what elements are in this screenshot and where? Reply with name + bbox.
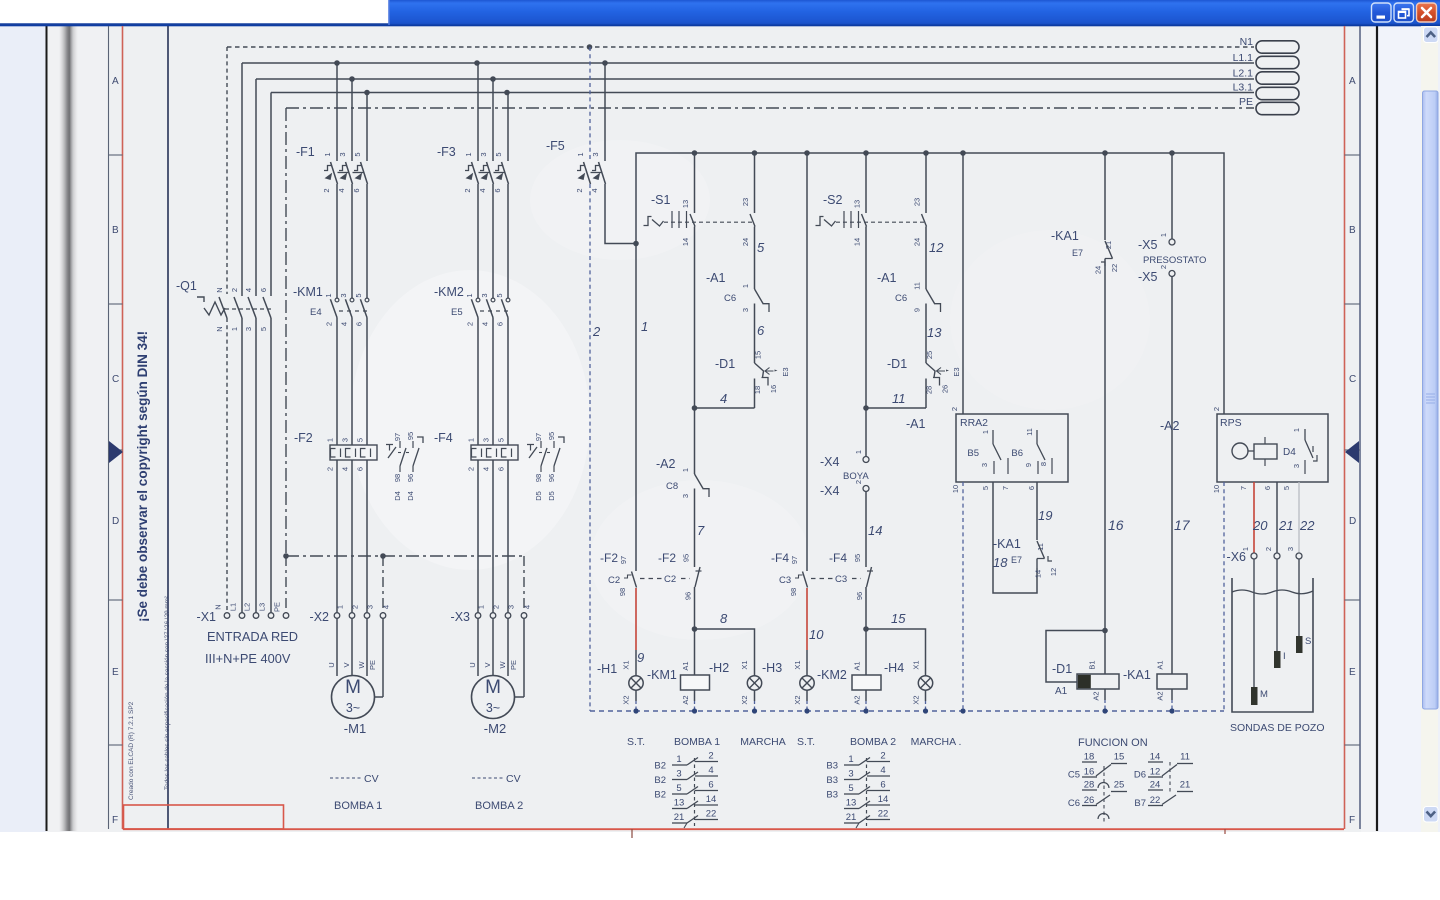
svg-text:4: 4 [720,391,727,406]
svg-text:F: F [1349,815,1355,826]
svg-text:3: 3 [482,438,491,442]
svg-text:6: 6 [880,780,885,791]
svg-text:U: U [327,662,336,667]
svg-text:26: 26 [941,385,950,393]
lamp H3 [762,650,814,711]
CV note pump1 [330,773,379,785]
svg-text:6: 6 [496,322,505,326]
RRA2 N dashed pin10 [962,482,964,711]
contactor KM2 [434,285,510,445]
main switch Q1 [176,279,274,332]
contactor coil KM1 [647,626,710,711]
svg-text:3: 3 [479,152,488,156]
S2 contact 23-24 [913,153,945,255]
svg-text:E4: E4 [310,307,322,318]
svg-text:97: 97 [534,433,543,441]
svg-text:1: 1 [326,438,335,442]
svg-text:B3: B3 [826,761,838,772]
svg-text:-KA1: -KA1 [1051,229,1079,243]
svg-text:4: 4 [708,765,713,776]
page curl shadow [59,26,78,831]
svg-text:-H3: -H3 [762,661,782,675]
svg-text:11: 11 [892,391,906,406]
svg-text:-F1: -F1 [296,145,315,159]
branch to H4 [866,629,926,676]
svg-text:-X6: -X6 [1227,550,1247,564]
relay box A1 RRA2 [950,407,1068,493]
svg-text:M: M [1260,689,1268,700]
svg-text:S.T.: S.T. [797,736,815,748]
svg-text:E5: E5 [451,307,463,318]
junction dot rung KM2 [863,405,869,411]
svg-text:3: 3 [676,769,681,780]
svg-text:A2: A2 [1092,691,1101,700]
rung 1 wire [635,244,637,572]
svg-text:-M1: -M1 [344,721,366,736]
svg-text:2: 2 [326,467,335,471]
title block tick right [1224,829,1226,834]
svg-text:L3: L3 [258,603,267,611]
svg-text:2: 2 [467,467,476,471]
svg-text:SONDAS DE POZO: SONDAS DE POZO [1230,722,1325,734]
svg-text:CV: CV [506,773,521,785]
svg-text:1: 1 [576,152,585,156]
xref C5/C6 timer contacts [1068,752,1127,825]
svg-text:S.T.: S.T. [627,736,645,748]
svg-text:10: 10 [1212,485,1221,493]
bottom white band [0,832,1440,900]
svg-text:-F2: -F2 [600,551,618,565]
svg-text:B: B [112,225,119,236]
relay coil KA1 [1123,660,1187,711]
wires Q1 to X1 [227,318,271,613]
svg-text:5: 5 [676,783,681,794]
svg-text:6: 6 [708,780,713,791]
terminal strip X1 [197,602,289,624]
svg-text:97: 97 [790,556,799,564]
svg-text:5: 5 [497,438,506,442]
F2 aux 97-98 (C2) [600,551,690,596]
svg-text:4: 4 [482,467,491,471]
svg-text:97: 97 [619,556,628,564]
svg-text:4: 4 [382,605,391,609]
svg-text:6: 6 [352,188,361,192]
svg-text:2: 2 [466,322,475,326]
svg-text:9: 9 [1024,463,1033,467]
svg-text:4: 4 [478,188,487,192]
svg-text:7: 7 [697,523,705,538]
svg-text:6: 6 [356,467,365,471]
svg-text:2: 2 [854,480,863,484]
level relay box A2 RPS [1212,407,1328,493]
svg-text:MARCHA: MARCHA [740,736,786,748]
svg-text:C8: C8 [666,481,678,492]
svg-text:13: 13 [681,200,690,208]
svg-text:N1: N1 [1240,36,1254,48]
motor M2 [472,676,515,737]
wire bus to X5 [1171,153,1173,239]
svg-text:2: 2 [1212,407,1221,411]
terminal strip X2 [310,605,391,624]
svg-text:L1: L1 [229,603,238,611]
svg-text:1: 1 [324,293,333,297]
svg-text:-S1: -S1 [651,193,671,207]
svg-text:B5: B5 [967,448,979,459]
svg-text:2: 2 [575,188,584,192]
svg-text:11: 11 [1025,428,1034,436]
svg-text:-KM1: -KM1 [293,285,323,299]
svg-text:4: 4 [340,322,349,326]
title bar white menu box [0,0,389,25]
wire A2 to F2 aux [694,489,696,568]
svg-text:14: 14 [853,238,862,246]
svg-text:3~: 3~ [486,701,500,715]
bus L3.1 [271,92,1254,94]
svg-text:10: 10 [809,627,824,642]
svg-text:5: 5 [757,240,765,255]
svg-text:5: 5 [981,486,990,490]
svg-text:3: 3 [741,308,750,312]
svg-text:9: 9 [913,308,922,312]
svg-text:C5: C5 [1068,770,1080,781]
svg-text:28: 28 [1084,780,1095,791]
svg-text:S: S [1305,636,1311,647]
svg-text:1: 1 [676,754,681,765]
selector switch S1 [644,193,756,228]
red wire rung 10 [806,588,808,650]
frame inner thin line left [108,26,110,829]
well tank [1232,578,1313,712]
svg-text:14: 14 [706,794,717,805]
svg-text:-D1: -D1 [1052,662,1072,676]
CV note pump2 [472,773,521,785]
svg-text:D: D [1349,516,1356,527]
svg-text:Creado con ELCAD (R) 7.2.1 SP2: Creado con ELCAD (R) 7.2.1 SP2 [128,701,135,800]
svg-text:15: 15 [891,611,906,626]
svg-text:C3: C3 [835,574,847,585]
relay contact A2 C8 [656,457,709,538]
title block red box [124,805,284,829]
svg-text:5: 5 [356,438,365,442]
row labels left [112,76,119,826]
svg-text:-KM1: -KM1 [647,668,677,682]
svg-text:PE: PE [368,660,377,670]
S2 contact 13-14 [853,153,867,246]
PE dash-dot distribution [283,553,525,612]
svg-text:97: 97 [393,433,402,441]
svg-text:U: U [468,662,477,667]
svg-text:L2: L2 [243,603,252,611]
svg-text:6: 6 [1027,486,1036,490]
lamp H2 [709,660,762,711]
motor M1 [332,676,375,737]
svg-text:-X4: -X4 [820,484,840,498]
svg-text:I: I [1283,651,1286,662]
svg-text:-A1: -A1 [906,417,926,431]
terminal strip X3 [451,605,532,624]
svg-text:C2: C2 [664,574,676,585]
svg-text:V: V [483,662,492,667]
svg-text:4: 4 [880,765,885,776]
svg-text:A1: A1 [1156,660,1165,669]
svg-text:96: 96 [684,592,693,600]
svg-text:5: 5 [354,293,363,297]
svg-text:-H2: -H2 [709,661,729,675]
svg-text:14: 14 [681,238,690,246]
wires X3 to motor M2 [468,619,524,698]
electrode M [1251,687,1268,705]
svg-text:A2: A2 [1156,691,1165,700]
svg-text:III+N+PE 400V: III+N+PE 400V [205,651,291,666]
svg-text:D4: D4 [1283,447,1296,458]
svg-text:2: 2 [322,188,331,192]
svg-text:14: 14 [1034,570,1043,578]
svg-text:96: 96 [855,592,864,600]
svg-text:5: 5 [848,783,853,794]
svg-text:B1: B1 [1088,660,1097,669]
svg-text:2: 2 [592,324,601,339]
svg-text:21: 21 [1278,518,1293,533]
svg-text:N: N [215,326,224,331]
scrollbar thumb [1423,91,1439,709]
wire N dashed below F5 (rung 2) [589,184,591,711]
svg-text:3: 3 [339,293,348,297]
svg-text:RPS: RPS [1220,417,1242,429]
svg-text:A2: A2 [681,695,690,704]
KA1 aux loop wires [993,482,1037,593]
terminal X4-2 boya [820,480,869,498]
svg-text:-X2: -X2 [310,610,330,624]
overload relay F4 (pump2) [467,432,565,501]
timer contact D1 (pump2) [866,351,961,408]
terminal X5-1 [1138,233,1175,252]
svg-text:-A2: -A2 [656,457,676,471]
wire S1 to A2 contact [694,232,696,474]
terminal strip X6 [1227,547,1302,564]
svg-text:4: 4 [244,288,253,292]
svg-text:4: 4 [481,322,490,326]
svg-text:95: 95 [682,554,691,562]
svg-text:C6: C6 [1068,798,1080,809]
svg-text:B6: B6 [1011,448,1023,459]
electrode I [1274,651,1286,668]
svg-text:8: 8 [1039,462,1048,466]
wire X5 to KA1 coil [1171,277,1173,675]
svg-text:B3: B3 [826,790,838,801]
svg-text:4: 4 [337,188,346,192]
svg-text:1: 1 [1292,428,1301,432]
scrollbar track [1421,26,1438,832]
F4 aux 97-98 (C3) [771,551,861,596]
svg-text:2: 2 [492,605,501,609]
svg-text:D5: D5 [547,491,556,501]
svg-text:98: 98 [534,474,543,482]
svg-text:-D1: -D1 [715,357,735,371]
svg-text:FUNCION ON: FUNCION ON [1078,737,1148,749]
svg-text:18: 18 [993,555,1008,570]
wires X2 to motor M1 [327,619,383,698]
svg-text:6: 6 [1263,486,1272,490]
svg-text:13: 13 [846,798,857,809]
bus L1.1 [242,62,1254,64]
svg-text:5: 5 [259,327,268,331]
bus labels [1233,36,1254,108]
control N dashed line [590,710,1224,712]
svg-text:13: 13 [674,798,685,809]
bus terminal pills [1256,41,1299,115]
svg-text:3: 3 [341,438,350,442]
svg-text:6: 6 [259,288,268,292]
RPS wire 22 (faint) [1298,482,1300,553]
svg-text:B2: B2 [654,775,666,786]
svg-text:98: 98 [618,588,627,596]
svg-text:11: 11 [913,282,922,290]
junction dot D1 branch [1102,628,1108,634]
svg-text:L3.1: L3.1 [1233,82,1254,94]
wire S2 to X4 [865,232,867,456]
frame navy line left [167,26,169,829]
svg-text:BOMBA 2: BOMBA 2 [850,736,896,748]
svg-text:X1: X1 [793,660,802,669]
svg-text:1: 1 [477,605,486,609]
branch to H2 [695,629,755,676]
svg-text:-F5: -F5 [546,139,565,153]
wire bus to RRA2 [962,153,964,414]
svg-text:1: 1 [465,293,474,297]
F2 aux 95-96 [658,551,702,629]
svg-text:-X4: -X4 [820,455,840,469]
svg-text:1: 1 [230,327,239,331]
svg-text:W: W [357,661,366,669]
svg-text:-A2: -A2 [1160,419,1180,433]
svg-text:-KM2: -KM2 [817,668,847,682]
svg-text:W: W [498,661,507,669]
svg-text:-KA1: -KA1 [1123,668,1151,682]
svg-text:C3: C3 [779,575,791,586]
svg-text:E7: E7 [1011,555,1022,565]
svg-text:3~: 3~ [346,701,360,715]
svg-text:3: 3 [366,605,375,609]
breaker F1 [296,63,368,298]
svg-text:-KA1: -KA1 [993,537,1021,551]
svg-text:-X3: -X3 [451,610,471,624]
frame triangle marker left [109,441,123,463]
svg-text:21: 21 [674,812,685,823]
svg-text:B: B [1349,225,1356,236]
svg-text:21: 21 [1180,780,1191,791]
svg-text:14: 14 [868,523,882,538]
svg-text:2: 2 [708,751,713,762]
svg-text:-D1: -D1 [887,357,907,371]
KA1 contact 11-14 (E7) [993,537,1058,578]
svg-text:E3: E3 [952,367,961,376]
selector switch S2 [816,193,927,228]
svg-text:22: 22 [1150,795,1161,806]
svg-text:-F4: -F4 [771,551,789,565]
frame red line left [122,26,124,829]
svg-text:PE: PE [509,660,518,670]
svg-text:-A1: -A1 [877,271,897,285]
svg-text:D4: D4 [406,491,415,501]
bus N1 (dashed) [227,46,1254,48]
F4 aux 95-96 [829,551,873,629]
KA1 NC contact 21-22 [1051,229,1119,274]
svg-text:12: 12 [929,240,944,255]
svg-text:98: 98 [393,474,402,482]
svg-text:C: C [112,374,119,385]
svg-text:-Q1: -Q1 [176,279,197,293]
RPS red wire 20 [1253,482,1255,553]
svg-text:M: M [345,677,361,698]
terminal X5-2 [1138,265,1175,284]
relay contact A1 C6 (pump2) [877,227,942,354]
frame navy line right [1359,26,1361,829]
svg-text:BOMBA 2: BOMBA 2 [475,800,523,812]
junction dot rung KM1 [692,405,698,411]
svg-text:6: 6 [497,467,506,471]
svg-text:-X5: -X5 [1138,270,1158,284]
svg-text:-KM2: -KM2 [434,285,464,299]
function labels row [627,736,961,748]
svg-text:C: C [1349,374,1356,385]
junction control feed [633,241,639,247]
svg-text:1: 1 [848,754,853,765]
svg-text:3: 3 [338,152,347,156]
svg-text:-X5: -X5 [1138,238,1158,252]
svg-text:2: 2 [351,605,360,609]
svg-text:1: 1 [681,468,690,472]
svg-text:3: 3 [591,152,600,156]
svg-text:A1: A1 [1055,686,1068,697]
svg-text:13: 13 [927,325,942,340]
svg-text:1: 1 [467,438,476,442]
svg-text:95: 95 [853,554,862,562]
riser PE down (dash-dot) [285,108,287,556]
svg-text:24: 24 [741,238,750,246]
svg-text:PE: PE [273,602,282,612]
svg-text:4: 4 [341,467,350,471]
breaker F3 [437,63,509,298]
svg-text:3: 3 [980,463,989,467]
svg-text:2: 2 [1264,547,1273,551]
svg-text:3: 3 [480,293,489,297]
svg-text:PE: PE [1239,96,1253,108]
svg-text:-S2: -S2 [823,193,843,207]
svg-text:16: 16 [1108,517,1124,533]
row labels right [1349,76,1356,826]
svg-text:18: 18 [1084,752,1095,763]
svg-text:13: 13 [853,200,862,208]
electrode S [1296,636,1311,653]
svg-text:16: 16 [1084,767,1095,778]
svg-text:7: 7 [1001,486,1010,490]
red wire rung 9 [635,588,637,650]
svg-text:B2: B2 [654,761,666,772]
svg-text:16: 16 [769,385,778,393]
svg-text:C6: C6 [724,293,736,304]
svg-text:-F2: -F2 [294,431,313,445]
svg-text:E3: E3 [781,367,790,376]
scrollbar up button [1424,27,1439,43]
restore button [1394,3,1414,22]
bus PE (dash-dot) [286,107,1254,109]
svg-text:X1: X1 [622,660,631,669]
xref table KM1 [654,751,718,829]
svg-text:10: 10 [951,485,960,493]
svg-text:96: 96 [406,474,415,482]
svg-text:CV: CV [364,773,379,785]
svg-text:A1: A1 [681,661,690,670]
